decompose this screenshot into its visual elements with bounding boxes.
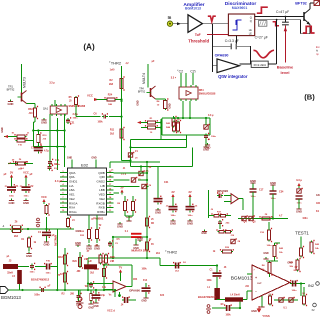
svg-text:VCC: VCC bbox=[23, 170, 29, 174]
svg-text:GND: GND bbox=[251, 310, 257, 313]
svg-text:SN65LVDS1B8: SN65LVDS1B8 bbox=[69, 105, 86, 108]
svg-text:GND: GND bbox=[75, 241, 81, 245]
svg-text:Threshold: Threshold bbox=[188, 38, 209, 43]
svg-text:GND: GND bbox=[205, 146, 211, 150]
svg-text:100n: 100n bbox=[302, 218, 308, 220]
svg-text:100n: 100n bbox=[267, 245, 273, 247]
svg-text:100n: 100n bbox=[188, 215, 194, 217]
svg-text:GND: GND bbox=[137, 100, 140, 106]
svg-text:Baseline: Baseline bbox=[277, 65, 294, 70]
svg-text:QA1: QA1 bbox=[43, 107, 49, 111]
svg-text:OUT: OUT bbox=[257, 283, 262, 285]
svg-text:J4B: J4B bbox=[110, 260, 115, 263]
svg-text:GND: GND bbox=[117, 225, 123, 229]
svg-text:J4p: J4p bbox=[101, 294, 106, 297]
svg-text:MULT4: MULT4 bbox=[142, 73, 146, 84]
svg-text:100n: 100n bbox=[34, 294, 40, 297]
svg-text:MULT3: MULT3 bbox=[23, 77, 27, 88]
svg-text:R24: R24 bbox=[108, 94, 113, 97]
svg-text:100k: 100k bbox=[141, 269, 147, 271]
svg-text:GND: GND bbox=[170, 222, 176, 226]
svg-text:NFM21PS: NFM21PS bbox=[54, 235, 57, 246]
svg-text:MURATA 2012: MURATA 2012 bbox=[131, 249, 149, 253]
svg-text:GND: GND bbox=[88, 307, 94, 310]
svg-text:GND: GND bbox=[263, 252, 269, 255]
svg-text:2k1: 2k1 bbox=[156, 252, 161, 255]
svg-text:ToF: ToF bbox=[195, 33, 201, 37]
svg-text:µR: µR bbox=[89, 261, 92, 263]
svg-text:2k2: 2k2 bbox=[110, 133, 115, 136]
svg-text:E02: E02 bbox=[81, 163, 89, 168]
svg-text:C=27 µF: C=27 µF bbox=[255, 36, 268, 40]
svg-text:GND: GND bbox=[44, 243, 50, 247]
svg-text:4.7µ: 4.7µ bbox=[44, 150, 49, 153]
svg-text:SN65LVDS1B8: SN65LVDS1B8 bbox=[199, 93, 216, 96]
svg-text:GND: GND bbox=[41, 121, 47, 125]
svg-text:GND: GND bbox=[8, 102, 14, 106]
svg-text:27p: 27p bbox=[54, 168, 58, 170]
svg-text:QtW integrator: QtW integrator bbox=[218, 74, 248, 79]
svg-text:Q: Q bbox=[250, 19, 252, 23]
svg-text:2k2: 2k2 bbox=[14, 235, 19, 238]
svg-text:OPA690: OPA690 bbox=[129, 289, 140, 293]
svg-text:BGM1013: BGM1013 bbox=[185, 7, 201, 11]
svg-text:(A): (A) bbox=[83, 43, 95, 52]
svg-text:GND: GND bbox=[201, 232, 207, 235]
svg-text:BFT92: BFT92 bbox=[7, 88, 15, 92]
svg-text:100n: 100n bbox=[9, 196, 15, 198]
svg-text:+: + bbox=[255, 276, 257, 280]
svg-text:1B4: 1B4 bbox=[133, 278, 138, 281]
svg-text:GND: GND bbox=[23, 201, 29, 205]
svg-text:GN: GN bbox=[316, 194, 320, 197]
svg-text:GND: GND bbox=[86, 247, 92, 251]
svg-text:C17: C17 bbox=[259, 189, 264, 192]
svg-text:GND: GND bbox=[187, 222, 193, 226]
svg-text:BGA2748/2012: BGA2748/2012 bbox=[31, 278, 50, 282]
svg-text:GND: GND bbox=[76, 230, 82, 233]
svg-text:OPA690: OPA690 bbox=[215, 53, 229, 57]
svg-text:GND: GND bbox=[26, 254, 32, 258]
svg-text:3V: 3V bbox=[10, 170, 13, 174]
svg-text:−: − bbox=[255, 290, 257, 294]
svg-text:F24: F24 bbox=[160, 294, 165, 297]
svg-text:100k: 100k bbox=[225, 315, 231, 317]
svg-text:3.3 µ: 3.3 µ bbox=[208, 114, 214, 117]
svg-text:BGM1013: BGM1013 bbox=[231, 276, 253, 282]
svg-text:3V: 3V bbox=[171, 190, 174, 194]
svg-text:R29: R29 bbox=[73, 261, 78, 263]
svg-text:GND: GND bbox=[9, 201, 15, 205]
svg-text:100n: 100n bbox=[24, 196, 30, 198]
svg-text:R4B: R4B bbox=[110, 256, 115, 259]
svg-text:In: In bbox=[168, 15, 172, 20]
svg-text:MAX9601: MAX9601 bbox=[232, 6, 248, 10]
svg-text:100n: 100n bbox=[30, 272, 36, 274]
svg-text:(B): (B) bbox=[304, 93, 315, 102]
svg-text:GND: GND bbox=[141, 300, 147, 303]
svg-text:Z6b: Z6b bbox=[226, 223, 231, 225]
svg-text:100k: 100k bbox=[97, 122, 103, 124]
svg-text:VCC d: VCC d bbox=[107, 309, 115, 313]
svg-text:BGA2748/2012: BGA2748/2012 bbox=[198, 295, 217, 299]
svg-text:2k8: 2k8 bbox=[109, 83, 114, 86]
svg-text:⌜THR2: ⌜THR2 bbox=[109, 61, 122, 66]
svg-text:100n: 100n bbox=[73, 118, 79, 120]
svg-text:C34: C34 bbox=[279, 191, 284, 194]
svg-text:C11: C11 bbox=[54, 163, 59, 166]
svg-text:GND: GND bbox=[155, 211, 161, 215]
svg-text:1of0: 1of0 bbox=[110, 70, 115, 72]
svg-text:BFT92: BFT92 bbox=[138, 91, 146, 94]
svg-text:GND: GND bbox=[250, 179, 256, 183]
svg-text:LE: LE bbox=[249, 29, 252, 32]
svg-text:IN2: IN2 bbox=[308, 283, 315, 288]
svg-text:GND: GND bbox=[296, 210, 302, 214]
svg-text:3.3 µ: 3.3 µ bbox=[73, 113, 79, 116]
svg-text:100n: 100n bbox=[171, 215, 177, 217]
svg-text:RXAs: RXAs bbox=[69, 210, 77, 214]
svg-text:X2A: X2A bbox=[316, 202, 320, 205]
svg-text:YVSS: YVSS bbox=[262, 314, 270, 318]
svg-text:GND: GND bbox=[94, 247, 100, 251]
svg-text:⌜THR2: ⌜THR2 bbox=[165, 250, 178, 255]
svg-text:GND: GND bbox=[137, 236, 143, 240]
svg-text:100n: 100n bbox=[46, 273, 52, 275]
svg-text:BFT92: BFT92 bbox=[295, 2, 307, 6]
svg-text:VCC: VCC bbox=[87, 94, 93, 98]
svg-text:R=2.2kΩ: R=2.2kΩ bbox=[254, 63, 267, 67]
svg-text:GND: GND bbox=[169, 103, 172, 109]
svg-text:3.3 ×: 3.3 × bbox=[171, 77, 177, 80]
svg-text:Q: Q bbox=[250, 16, 252, 20]
svg-text:3V: 3V bbox=[120, 185, 123, 189]
svg-text:L4 20nH: L4 20nH bbox=[230, 294, 240, 297]
svg-text:C2\: C2\ bbox=[190, 70, 195, 74]
svg-text:100k: 100k bbox=[206, 280, 212, 282]
svg-text:LE: LE bbox=[249, 33, 252, 36]
svg-text:J80: J80 bbox=[70, 293, 75, 296]
svg-text:16B: 16B bbox=[108, 104, 112, 106]
svg-text:µPA8B01: µPA8B01 bbox=[92, 216, 104, 220]
svg-text:C21: C21 bbox=[70, 122, 75, 125]
svg-text:J10: J10 bbox=[29, 112, 34, 115]
svg-text:⌜C2: ⌜C2 bbox=[177, 70, 183, 74]
svg-text:3.3 µ: 3.3 µ bbox=[296, 178, 302, 182]
svg-text:R11: R11 bbox=[110, 129, 115, 132]
svg-text:level: level bbox=[281, 70, 290, 75]
svg-text:GND: GND bbox=[287, 262, 293, 265]
svg-text:BGM1013: BGM1013 bbox=[1, 295, 21, 300]
svg-text:3B: 3B bbox=[151, 223, 154, 225]
svg-text:F14: F14 bbox=[143, 279, 148, 282]
svg-text:VCC: VCC bbox=[41, 195, 47, 199]
svg-text:GND: GND bbox=[91, 156, 97, 159]
svg-text:GND: GND bbox=[270, 181, 276, 185]
svg-text:100n: 100n bbox=[292, 290, 298, 292]
svg-text:C=47 µF: C=47 µF bbox=[276, 10, 289, 14]
svg-text:3V: 3V bbox=[188, 190, 191, 194]
svg-text:C21: C21 bbox=[164, 181, 169, 184]
svg-text:3.3 µ: 3.3 µ bbox=[49, 82, 55, 85]
svg-text:100n: 100n bbox=[211, 136, 217, 138]
svg-text:TEST1: TEST1 bbox=[295, 231, 309, 236]
svg-text:GND: GND bbox=[1, 127, 4, 133]
svg-text:3.3 µF: 3.3 µF bbox=[55, 179, 63, 183]
svg-text:R63: R63 bbox=[28, 108, 33, 111]
svg-text:TV: TV bbox=[119, 265, 123, 269]
svg-text:GND: GND bbox=[76, 304, 82, 307]
svg-text:GND: GND bbox=[67, 156, 73, 159]
svg-text:GND: GND bbox=[93, 305, 99, 308]
svg-text:RXBs: RXBs bbox=[97, 210, 105, 214]
